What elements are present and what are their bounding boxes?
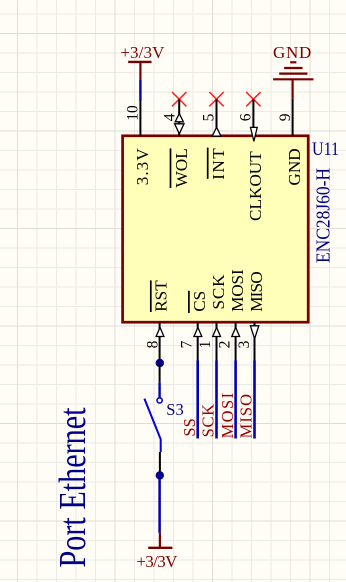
- svg-text:4: 4: [162, 113, 179, 121]
- pin 9 (GND, top): [292, 99, 294, 136]
- pin 2 input arrow: [232, 327, 240, 336]
- svg-text:SS: SS: [180, 418, 199, 436]
- pin 10 (3.3V, top): [139, 100, 141, 136]
- svg-text:3: 3: [236, 340, 253, 348]
- svg-text:5: 5: [201, 113, 218, 121]
- pin 4 I/O arrows: [175, 114, 184, 134]
- svg-text:2: 2: [217, 341, 234, 349]
- switch S3 blade: [144, 399, 160, 452]
- pin 7 (CS, bottom): [197, 322, 199, 360]
- pin 4 (WOL, top): [178, 99, 180, 136]
- pin 3 (MISO, bottom): [254, 322, 256, 360]
- wire pin 2 (net MOSI): [234, 361, 237, 439]
- svg-text:MISO: MISO: [247, 271, 266, 312]
- svg-text:SCK: SCK: [199, 404, 218, 438]
- svg-text:7: 7: [178, 340, 195, 348]
- svg-text:MOSI: MOSI: [228, 269, 247, 312]
- svg-text:6: 6: [238, 113, 255, 121]
- svg-text:Port Ethernet: Port Ethernet: [52, 407, 94, 567]
- svg-text:CS: CS: [190, 291, 209, 312]
- svg-text:8: 8: [145, 340, 162, 348]
- switch S3 bottom lead: [159, 452, 161, 472]
- wire pin 7 (net SS): [196, 361, 199, 439]
- pin 1 input arrow: [213, 327, 221, 336]
- pin 3 output arrow: [250, 326, 258, 339]
- svg-text:ENC28J60-H: ENC28J60-H: [313, 168, 335, 263]
- pin 7 input arrow: [194, 327, 202, 336]
- junction at pin 8 wire: [156, 359, 164, 367]
- pin 6 (CLKOUT, top): [252, 99, 254, 136]
- pin 8 (RST, bottom): [159, 322, 161, 360]
- power port +3/3V (top): [120, 43, 165, 80]
- svg-text:WOL: WOL: [172, 148, 191, 187]
- svg-text:3.3V: 3.3V: [133, 148, 152, 186]
- svg-text:10: 10: [125, 105, 142, 121]
- svg-text:GND: GND: [273, 43, 311, 62]
- svg-text:SCK: SCK: [209, 274, 228, 310]
- pin 1 (SCK, bottom): [216, 322, 218, 360]
- junction below switch: [156, 471, 164, 479]
- pin 6 output arrow: [251, 127, 258, 141]
- no-ERC cross pin 6: [246, 92, 260, 106]
- no-ERC cross pin 4: [172, 92, 186, 106]
- svg-text:RST: RST: [151, 280, 170, 312]
- wire pin 1 (net SCK): [215, 361, 218, 439]
- pin 8 input arrow: [156, 327, 164, 336]
- svg-text:+3/3V: +3/3V: [120, 43, 165, 62]
- wire switch to +3/3V: [158, 475, 161, 532]
- no-ERC cross pin 5: [209, 92, 223, 106]
- svg-text:CLKOUT: CLKOUT: [246, 151, 265, 221]
- power port +3/3V (bottom): [136, 533, 178, 571]
- IC U11 body ENC28J60-H: [123, 136, 309, 322]
- pin 2 (MOSI, bottom): [235, 322, 237, 360]
- pin 5 (INT, top): [216, 99, 218, 136]
- svg-text:+3/3V: +3/3V: [136, 552, 178, 571]
- wire pin 3 (net MISO): [253, 361, 256, 439]
- switch S3 top lead: [159, 363, 161, 382]
- wire to switch contact: [158, 382, 160, 397]
- svg-text:1: 1: [197, 341, 214, 349]
- power port GND (top): [273, 43, 314, 99]
- svg-text:S3: S3: [166, 400, 183, 419]
- svg-text:U11: U11: [312, 139, 339, 160]
- svg-text:INT: INT: [209, 148, 228, 180]
- switch S3 contact circle: [157, 398, 162, 403]
- wire +3/3V to pin 10: [139, 80, 141, 101]
- svg-text:GND: GND: [285, 148, 304, 185]
- svg-text:MISO: MISO: [237, 394, 256, 439]
- pin 5 output arrow: [212, 127, 221, 136]
- svg-text:9: 9: [277, 113, 294, 121]
